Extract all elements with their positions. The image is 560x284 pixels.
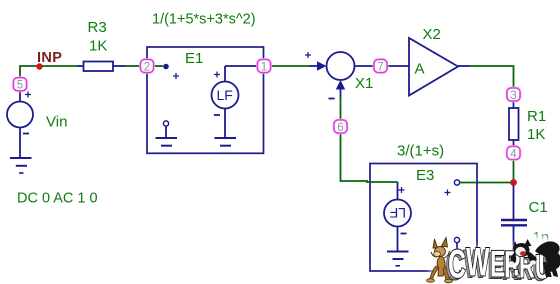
summing junction X1 circle [327, 52, 355, 80]
value 1n of C1 [533, 229, 550, 246]
wire laplace top to node 1 [225, 65, 258, 67]
wire R3 to node 2 [126, 65, 141, 67]
svg-text:LF: LF [217, 87, 233, 103]
plus sign at laplace E3 [399, 187, 405, 193]
svg-text:4: 4 [510, 148, 517, 160]
watermark text CWER.RU [446, 241, 551, 284]
block E1 box [147, 47, 264, 153]
plus sign at E1 input [173, 73, 179, 79]
svg-text:A: A [415, 61, 425, 78]
wire node 1 to X1 [270, 65, 309, 67]
wire node4 down to junction [513, 159, 515, 180]
node 7 badge [374, 60, 387, 74]
label A gain [415, 61, 425, 78]
svg-text:LF: LF [390, 205, 406, 221]
svg-text:Vin: Vin [46, 114, 67, 131]
svg-text:1/(1+5*s+3*s^2): 1/(1+5*s+3*s^2) [152, 12, 256, 28]
ground at E3 minus output [447, 252, 469, 260]
wire X2 output to node 3 [470, 66, 514, 89]
amplifier X2 triangle [409, 38, 458, 96]
svg-text:3/(1+s): 3/(1+s) [397, 143, 444, 160]
svg-text:R1: R1 [527, 108, 546, 125]
X1 bottom arrow [336, 80, 345, 97]
lead R1 to node4 [513, 140, 515, 147]
ground stem at E1 minus input [165, 126, 167, 138]
X1 input lead and arrow [309, 61, 327, 70]
label R1 [527, 108, 546, 125]
label C1 [529, 199, 548, 216]
capacitor C1 plates [501, 220, 527, 225]
svg-text:DC 0 AC 1 0: DC 0 AC 1 0 [17, 191, 98, 207]
node 1 badge [258, 60, 271, 74]
svg-text:E: E [490, 243, 505, 284]
junction red dot [510, 179, 517, 186]
laplace source in E1 stem top [224, 66, 226, 82]
minus sign at X1 bottom input [329, 98, 335, 100]
label X2 [423, 26, 441, 43]
wire node2 pin stub [153, 65, 163, 67]
resistor R3 lead right [113, 65, 126, 67]
svg-text:W: W [466, 241, 490, 284]
svg-text:6: 6 [337, 122, 343, 134]
wire from INP corner down to Vin [20, 66, 40, 78]
value 1K of R1 [527, 126, 545, 143]
node 2 badge [141, 60, 154, 74]
wire node7 to X2 [387, 65, 409, 67]
label Vin [46, 114, 67, 131]
pin dot plus output of E3 (open) [454, 180, 459, 185]
laplace source circle in E3 [384, 200, 411, 227]
svg-text:E1: E1 [185, 50, 203, 67]
laplace E1 stem bottom [224, 109, 226, 139]
svg-text:C: C [448, 243, 466, 284]
minus sign at laplace E3 [401, 233, 407, 235]
ground at E1 minus input [156, 138, 178, 146]
svg-text:5: 5 [17, 80, 23, 92]
svg-text:C1: C1 [529, 199, 548, 216]
lead node3 to R1 [513, 101, 515, 108]
svg-text:R3: R3 [88, 19, 107, 36]
node 3 badge [507, 88, 520, 102]
LF glyph in E1 [217, 87, 233, 103]
svg-text:E3: E3 [416, 167, 434, 184]
wire X1 down to E3 input [341, 97, 369, 181]
svg-text:X1: X1 [355, 75, 373, 92]
pin dot minus output of E3 (open) [454, 237, 459, 242]
laplace source circle in E1 [212, 82, 239, 109]
pin dot minus input of E1 (open) [163, 121, 168, 126]
value 1K of R3 [89, 38, 107, 55]
title 3/(1+s) [397, 143, 444, 160]
source Vin circle [7, 102, 33, 128]
label INP [37, 50, 62, 66]
wire E3 output to junction [477, 182, 511, 184]
resistor R3 lead left [77, 65, 84, 67]
svg-text:1K: 1K [527, 126, 545, 143]
svg-text:1K: 1K [89, 38, 107, 55]
node 5 badge [14, 78, 27, 92]
svg-text:1: 1 [261, 61, 267, 73]
svg-text:2: 2 [144, 61, 150, 73]
pin dot plus input of E1 [163, 64, 169, 70]
watermark sylvester cat figure [509, 239, 560, 277]
wire INP to R3 [42, 65, 77, 67]
source Vin stem bottom [19, 128, 21, 158]
ground under C1 [502, 257, 525, 271]
capacitor C1 lead top [513, 185, 515, 219]
title 1/(1+5*s+3*s^2) [152, 12, 256, 28]
svg-text:X2: X2 [423, 26, 441, 43]
minus sign of Vin [23, 133, 29, 135]
label DC 0 AC 1 0 [17, 191, 98, 207]
ground under laplace E3 [387, 252, 409, 266]
node INP red junction dot [36, 63, 42, 69]
plus sign at E3 output [445, 190, 451, 196]
node 4 badge [507, 147, 520, 161]
LF glyph rotated in E3 [390, 205, 406, 221]
wire E3 input inside [366, 181, 398, 183]
ground stem at E3 minus output [456, 243, 458, 252]
ground under Vin [10, 158, 32, 173]
X2 output lead [458, 65, 470, 67]
capacitor C1 lead bottom [513, 226, 515, 256]
source Vin stem top [19, 91, 21, 102]
wire E3 output stub [460, 182, 477, 184]
plus sign at laplace E1 [214, 72, 220, 78]
node 6 badge [334, 120, 347, 134]
resistor R1 [509, 108, 519, 140]
plus sign of Vin [25, 92, 31, 98]
label E3 [416, 167, 434, 184]
watermark coyote figure [427, 238, 453, 283]
label X1 [355, 75, 373, 92]
svg-text:INP: INP [37, 50, 62, 66]
plus sign at X1 input [305, 52, 311, 58]
minus sign at laplace E1 [214, 114, 220, 116]
laplace E3 stem bottom [397, 227, 399, 252]
laplace E3 stem top [397, 182, 399, 200]
svg-text:7: 7 [377, 61, 383, 73]
watermark white glow halo [430, 235, 560, 284]
label R3 [88, 19, 107, 36]
ground under laplace E1 [215, 138, 237, 146]
label E1 [185, 50, 203, 67]
svg-text:3: 3 [510, 90, 516, 102]
X1 output lead [355, 65, 375, 67]
resistor R3 [84, 62, 114, 72]
block E3 box [370, 164, 477, 272]
